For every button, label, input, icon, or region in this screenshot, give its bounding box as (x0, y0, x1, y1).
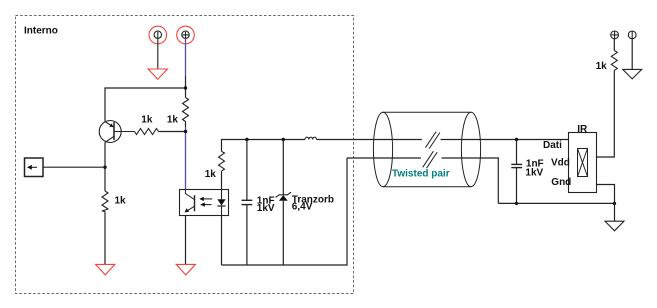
wire top right to IR (441, 139, 569, 141)
wire J4 down (631, 39, 633, 70)
svg-text:1kV: 1kV (257, 203, 275, 214)
opto-coupler U1 (180, 189, 229, 215)
terminal J2 (+) (177, 26, 195, 44)
ground arrow black (IR gnd) (605, 221, 624, 231)
junction C2 top (515, 138, 518, 141)
junction base net (184, 130, 187, 133)
wire input box to node (43, 166, 105, 168)
inductor L1 (305, 137, 317, 139)
bottom rail (222, 158, 348, 265)
junction tranzorb top (282, 138, 285, 141)
junction input node (103, 166, 106, 169)
wire J2 black segment (185, 76, 187, 98)
junction gnd node (613, 202, 616, 205)
svg-text:1k: 1k (141, 115, 153, 126)
svg-text:Twisted pair: Twisted pair (392, 168, 450, 179)
enclosure dashed box Interno (16, 16, 354, 294)
wire R5 to terminal (613, 39, 615, 51)
terminal J1 (|) (149, 26, 167, 44)
svg-text:6,4V: 6,4V (292, 201, 313, 212)
svg-text:Interno: Interno (24, 25, 58, 36)
junction C2 bottom (515, 202, 518, 205)
wire R2 to opto (blue) (185, 122, 187, 128)
svg-text:Vdd: Vdd (551, 157, 570, 168)
junction supply/rail (184, 86, 187, 89)
svg-text:1k: 1k (167, 115, 179, 126)
resistor R1 1k (base, horizontal) (135, 129, 159, 135)
wire R4 corner to rail (222, 140, 306, 152)
terminal J3 (+) (611, 31, 619, 39)
svg-text:1kV: 1kV (525, 167, 543, 178)
resistor R5 1k (611, 51, 617, 71)
wire Q1 collector down (104, 142, 106, 191)
wire J1 to power arrow (157, 38, 159, 69)
capacitor C2 (511, 140, 522, 204)
wire R3 to ground (104, 212, 106, 265)
ground arrow black (under J4) (623, 69, 642, 79)
svg-text:1k: 1k (205, 169, 217, 180)
break slashes lower wire (423, 151, 434, 167)
ground arrow red (under Q1) (96, 264, 115, 275)
svg-text:Gnd: Gnd (551, 177, 571, 188)
cable cylinder (373, 112, 480, 187)
ground arrow red (under opto) (176, 264, 195, 275)
resistor R2 1k (vertical on supply) (183, 98, 189, 122)
svg-text:1k: 1k (596, 61, 608, 72)
wire lower pair to cable (347, 157, 421, 159)
resistor R3 1k (collector to ground) (102, 191, 108, 212)
svg-text:1k: 1k (115, 196, 127, 207)
wire LED cathode to rail (221, 216, 223, 266)
wire Gnd pin down (596, 185, 614, 222)
junction cap C1 top (245, 138, 248, 141)
wire J2 down (blue) (185, 38, 187, 76)
wire rail to cable (317, 139, 422, 141)
svg-text:Dati: Dati (543, 140, 562, 151)
wire top rail out (221, 171, 223, 189)
break slashes top wire (425, 132, 436, 148)
wire R1 to base net (159, 131, 186, 133)
wire opto emitter to ground (185, 216, 187, 265)
bottom rail right (498, 202, 614, 204)
svg-text:IR: IR (577, 124, 588, 135)
wire top rail (105, 88, 186, 121)
IR receiver box U2 (569, 133, 597, 193)
terminal J4 (|) (628, 31, 636, 39)
capacitor C1 (242, 140, 253, 266)
input port box (25, 158, 44, 177)
wire lower right riser (442, 158, 499, 203)
power arrow (red, down) (148, 69, 167, 79)
resistor R4 1k (opto LED) (219, 151, 225, 171)
transistor Q1 (PNP) (99, 121, 134, 143)
tranzorb D1 (276, 140, 292, 266)
wire Vdd pin up (596, 70, 614, 157)
